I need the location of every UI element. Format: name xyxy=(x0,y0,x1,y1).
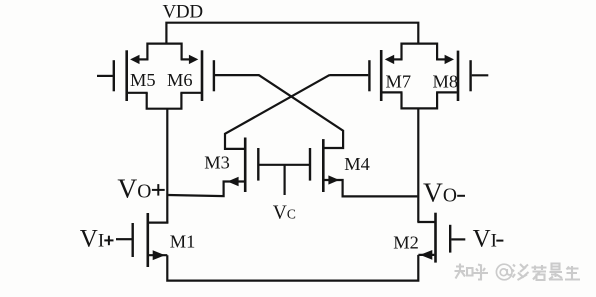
arrow M7 source (points left) xyxy=(385,55,394,64)
svg-text:M8: M8 xyxy=(433,71,459,91)
wire M7 gate lead xyxy=(329,74,368,76)
label M3 xyxy=(204,153,230,173)
watermark 知乎 @淡若是生 xyxy=(455,264,581,281)
svg-text:VO: VO xyxy=(117,172,151,203)
生 xyxy=(565,266,580,280)
知 xyxy=(455,264,473,279)
svg-text:M2: M2 xyxy=(393,232,419,252)
label M6 xyxy=(167,70,193,90)
label VI+ input xyxy=(80,225,104,252)
label Vc xyxy=(273,203,296,224)
wire M5/M6 common source hat xyxy=(147,44,181,61)
svg-text:VO: VO xyxy=(423,177,457,208)
label VI- input xyxy=(473,225,497,252)
arrow M4 drain (points right) xyxy=(328,175,339,184)
wire M7 drain lead xyxy=(382,91,402,93)
transistor M7 channel bar xyxy=(380,50,383,101)
power rail VDD wire xyxy=(166,23,418,44)
transistor M1 gate bar xyxy=(131,223,133,257)
transistor M3 gate bar xyxy=(257,148,259,181)
wire M6 source lead xyxy=(181,58,190,60)
svg-text:M5: M5 xyxy=(130,70,156,90)
wire bottom tail rail xyxy=(167,255,418,281)
label Vo+ plus sign xyxy=(152,184,165,196)
transistor M2 gate bar xyxy=(449,225,451,253)
watermark @ glyph xyxy=(496,264,512,280)
arrow M5 source (points left) xyxy=(130,55,139,64)
wire M8 drain lead xyxy=(436,91,457,93)
wire M3/M4 gate tie xyxy=(258,164,310,166)
label M2 xyxy=(393,232,419,252)
svg-text:VC: VC xyxy=(273,203,296,224)
wire M2 source lead xyxy=(418,254,434,256)
淡 xyxy=(512,264,529,280)
label VI- minus sign xyxy=(496,240,503,242)
svg-text:VDD: VDD xyxy=(163,2,203,23)
是 xyxy=(549,264,563,280)
VDD label xyxy=(163,2,203,23)
transistor M4 channel bar xyxy=(322,139,325,192)
label M8 xyxy=(433,71,459,91)
label M4 xyxy=(344,154,370,174)
label M7 xyxy=(386,71,412,91)
wire M4 drain to Vo- node xyxy=(324,180,417,196)
wire M1 drain lead xyxy=(149,222,169,224)
transistor M6 gate bar xyxy=(213,60,215,91)
wire M2 drain lead xyxy=(417,221,436,223)
wire M5 gate stub xyxy=(97,75,113,77)
transistor M2 channel bar xyxy=(434,213,437,263)
arrow M2 source (points left) xyxy=(420,250,432,260)
wire M5 drain lead xyxy=(128,92,148,94)
label Vo+ node xyxy=(117,172,151,203)
label VI+ plus sign xyxy=(104,236,113,246)
wire M8 source lead xyxy=(436,58,445,60)
transistor M5 channel bar xyxy=(125,50,128,101)
wire M1 source lead xyxy=(149,254,168,256)
wire cross-couple M7 gate to M3 source (diagonal) xyxy=(225,75,329,149)
transistor M1 channel bar xyxy=(147,213,150,267)
wire left output node vertical (Vo+ net) xyxy=(166,109,168,223)
svg-text:VI: VI xyxy=(80,225,104,252)
transistor M8 channel bar xyxy=(457,51,460,101)
arrow M3 drain (points left) xyxy=(227,177,238,186)
wire M7 source lead xyxy=(393,58,402,60)
label Vo- minus sign xyxy=(457,195,465,197)
arrow M6 source (points right) xyxy=(189,55,198,64)
transistor M4 gate bar xyxy=(309,148,311,181)
wire M6 drain lead xyxy=(180,92,201,94)
wire cross-couple M6 gate to M4 source (diagonal) xyxy=(259,75,343,148)
transistor M3 channel bar xyxy=(244,138,247,193)
wire M7/M8 common drain boot xyxy=(402,92,438,108)
wire M5/M6 common drain boot xyxy=(147,93,182,109)
wire right output node vertical (Vo- net) xyxy=(417,108,419,222)
transistor M8 gate bar xyxy=(469,60,471,91)
svg-text:M3: M3 xyxy=(204,153,230,173)
svg-text:M7: M7 xyxy=(386,71,412,91)
transistor M5 gate bar xyxy=(113,60,115,91)
svg-text:M1: M1 xyxy=(170,232,196,252)
wire M3 drain to Vo+ node xyxy=(168,182,244,197)
wire M5 source lead xyxy=(139,58,149,60)
arrow M8 source (points right) xyxy=(445,55,454,64)
wire M8 gate stub xyxy=(472,74,489,76)
svg-text:M4: M4 xyxy=(344,154,370,174)
transistor M6 channel bar xyxy=(201,50,204,101)
wire M7/M8 common source hat xyxy=(402,44,438,61)
label M1 xyxy=(170,232,196,252)
svg-text:M6: M6 xyxy=(167,70,193,90)
wire M1 gate lead xyxy=(116,238,132,240)
乎 xyxy=(474,265,489,280)
wire Vc stub xyxy=(284,165,286,195)
wire M6 gate lead xyxy=(215,74,259,76)
wire M2 gate lead xyxy=(451,238,465,240)
label Vo- node xyxy=(423,177,457,208)
label M5 xyxy=(130,70,156,90)
transistor M7 gate bar xyxy=(368,60,370,91)
若 xyxy=(532,265,547,280)
arrow M1 source (points right) xyxy=(153,250,165,260)
svg-text:VI: VI xyxy=(473,225,497,252)
